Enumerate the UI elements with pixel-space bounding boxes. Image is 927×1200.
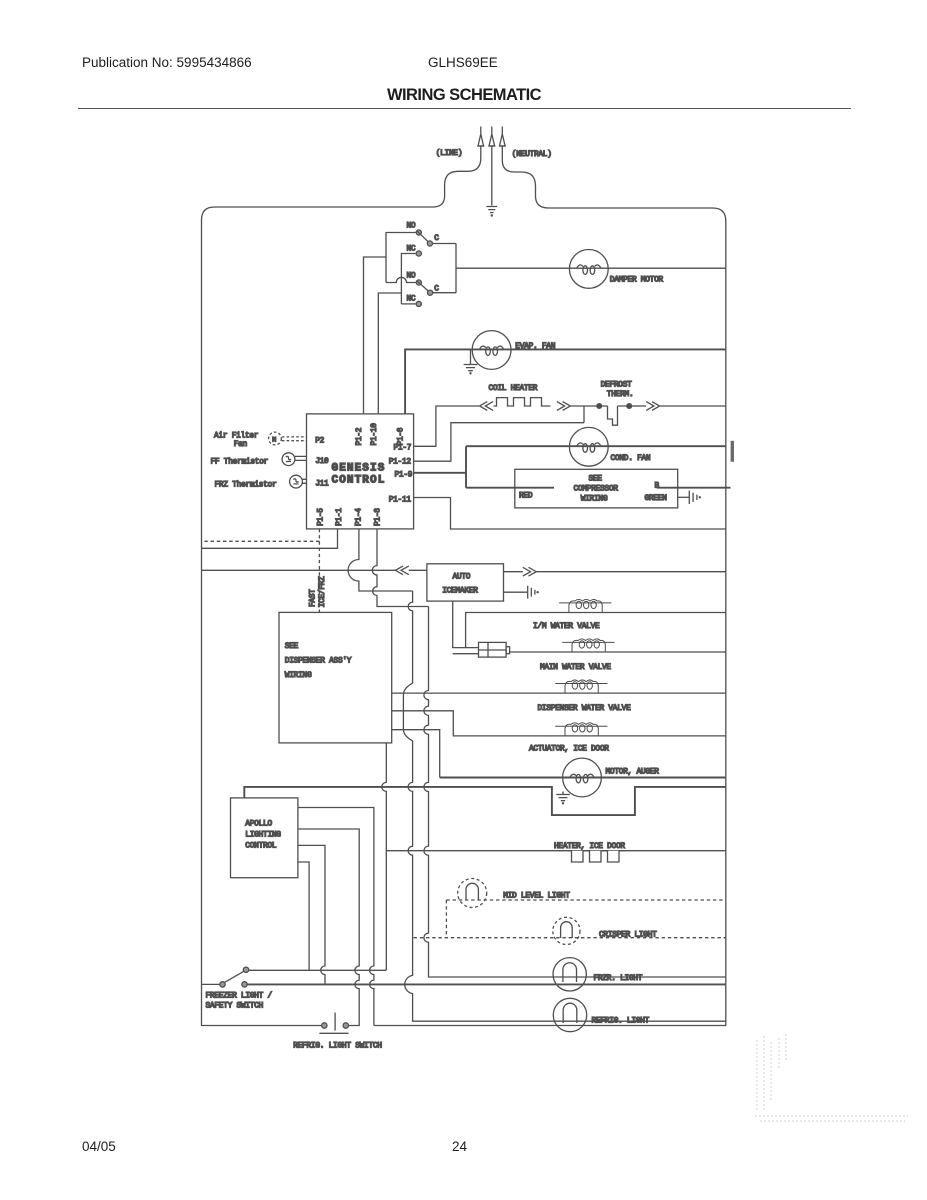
svg-text:I/M WATER VALVE: I/M WATER VALVE (533, 623, 600, 631)
wire: actuator ice door line (392, 711, 726, 736)
cond fan motor M3 (569, 427, 608, 466)
connector arrows << (icemaker feed) (395, 566, 408, 575)
svg-text:WIRING: WIRING (285, 672, 312, 680)
svg-text:MAIN WATER VALVE: MAIN WATER VALVE (540, 664, 611, 672)
apollo lighting control box (231, 798, 298, 878)
svg-text:(NEUTRAL): (NEUTRAL) (512, 151, 552, 159)
wire: icemaker pin to fuse (453, 601, 479, 654)
svg-text:P1-6: P1-6 (398, 427, 406, 445)
solenoid coil L2 (main water valve) (562, 639, 614, 652)
wire: ground prong drop (491, 146, 493, 206)
lamp crisper light (553, 917, 580, 944)
svg-text:CONTROL: CONTROL (332, 475, 386, 487)
ground symbol (auger motor) (556, 795, 570, 805)
wire: compressor GREEN lead (678, 496, 689, 498)
contact NO2 (416, 280, 421, 285)
svg-text:RED: RED (519, 493, 533, 501)
wire: P1-7 to coil heater (414, 406, 479, 446)
wire: apollo w2 to refrig switch (298, 829, 359, 1026)
tick mark on right frame (731, 441, 734, 462)
svg-text:J10: J10 (315, 458, 329, 466)
svg-text:CRISPER LIGHT: CRISPER LIGHT (599, 932, 657, 940)
contact C2 (428, 290, 433, 295)
wire: I/M water valve line (466, 613, 726, 648)
solenoid coil L3 (dispenser water valve) (555, 680, 607, 693)
svg-text:EVAP. FAN: EVAP. FAN (515, 343, 555, 351)
wire: apollo feed line (neutral) with detour under auger (244, 787, 726, 815)
auto icemaker box (427, 564, 504, 601)
wire: P1-5 dashed (203, 529, 319, 613)
damper motor M1 (569, 250, 608, 289)
svg-text:SAFETY SWITCH: SAFETY SWITCH (206, 1003, 264, 1011)
contact dot (defrost left) (597, 404, 602, 409)
contact NO1 (416, 230, 421, 235)
label FAST ICE/FRZ (rotated) (310, 576, 328, 608)
plug prong (LINE) (477, 127, 484, 147)
svg-text:SEE: SEE (589, 476, 603, 484)
wire: icemaker feed line (202, 569, 427, 571)
wire: crisper light dashed line (414, 937, 726, 939)
wire: NC2 stub (401, 303, 416, 305)
wire: line lead + left frame (line bus) (202, 146, 481, 1026)
contact NC1 (416, 251, 421, 256)
svg-text:P1-9: P1-9 (395, 472, 413, 480)
wire: heater to defrost junction (570, 405, 596, 407)
svg-text:FRZR. LIGHT: FRZR. LIGHT (594, 975, 643, 983)
freezer light / safety switch S1 (202, 967, 249, 987)
wire: motor auger line (440, 777, 726, 779)
FF thermistor RT1 (282, 453, 306, 466)
svg-text:Fan: Fan (234, 441, 247, 449)
contact C1 (427, 241, 432, 246)
svg-text:NO: NO (407, 273, 416, 281)
wire: auger ground stem (562, 792, 564, 795)
wire: compressor RED lead (466, 487, 554, 489)
wire: mid level light dashed line (446, 900, 725, 938)
svg-text:P1-4: P1-4 (356, 508, 364, 526)
evap fan motor M2 (472, 331, 511, 370)
wire: apollo w1 to bottom bus (298, 808, 374, 1026)
contact NC2 (416, 301, 421, 306)
wire: P1-1 to line bus (202, 529, 338, 548)
wire: apollo w4 to freezer NO (298, 862, 309, 970)
wire: icemaker ground stub (504, 591, 528, 593)
svg-text:ICE/FRZ: ICE/FRZ (319, 576, 327, 608)
wire: evap fan ground stem (470, 350, 472, 364)
wire: heater ice door line (386, 850, 726, 852)
wire: dispenser box bottom to heater/freezer-NO (382, 743, 387, 970)
svg-text:NC: NC (407, 296, 416, 304)
wire: defrost to neutral bus (660, 405, 726, 407)
svg-text:NO: NO (407, 223, 416, 231)
svg-text:P1-8: P1-8 (375, 508, 383, 526)
defrost thermostat element (602, 406, 627, 425)
svg-text:DAMPER MOTOR: DAMPER MOTOR (610, 277, 664, 285)
contact dot (defrost right) (627, 404, 632, 409)
svg-text:P1-12: P1-12 (389, 459, 412, 467)
svg-text:P1-1: P1-1 (336, 508, 344, 526)
wire: compressor B lead to neutral bus (657, 487, 731, 489)
svg-text:FF Thermistor: FF Thermistor (211, 459, 269, 467)
wire: main water valve line (510, 651, 726, 653)
svg-text:P1-2: P1-2 (356, 427, 364, 445)
connector arrows >> (coil heater right) (557, 402, 570, 411)
svg-text:J11: J11 (315, 481, 329, 489)
wire: C bus (433, 244, 457, 293)
lamp frzr light (553, 958, 586, 991)
wire: neutral lead + right frame (neutral bus) (374, 146, 726, 1026)
ground symbol (plug) (486, 207, 497, 217)
wire: icemaker output to neutral bus (504, 571, 726, 573)
fuse F1 (479, 642, 510, 657)
svg-text:MOTOR, AUGER: MOTOR, AUGER (606, 769, 660, 777)
wire: P1-10 riser to bracket 2 (378, 293, 401, 414)
wire: NO2 line with hop over bracket 2 (386, 277, 416, 282)
plug prong (NEUTRAL) (500, 127, 506, 147)
connector arrows >> (icemaker out) (523, 567, 536, 576)
wire: defrost to >> (632, 405, 646, 407)
svg-text:P2: P2 (315, 438, 324, 446)
solenoid coil L4 (actuator ice door) (555, 723, 607, 736)
connector arrows >> (defrost right) (646, 402, 659, 411)
relay bracket 2 (401, 254, 415, 304)
svg-text:P1-10: P1-10 (371, 423, 379, 446)
svg-text:P1-7: P1-7 (394, 445, 412, 453)
svg-text:(LINE): (LINE) (436, 150, 463, 158)
svg-text:REFRIG. LIGHT: REFRIG. LIGHT (592, 1018, 650, 1026)
svg-text:APOLLO: APOLLO (245, 821, 272, 829)
wire: freezer NO line (249, 969, 387, 971)
resistor heater ice door (569, 851, 626, 862)
refrig light switch S2 (319, 1013, 348, 1034)
svg-text:COND. FAN: COND. FAN (611, 455, 651, 463)
wire: P1-9 heavy (414, 446, 466, 488)
svg-text:LIGHTING: LIGHTING (245, 832, 281, 840)
connector arrows << (coil heater left) (480, 402, 493, 411)
ground symbol (green lead) (689, 491, 701, 504)
svg-text:THERM.: THERM. (607, 391, 634, 399)
wire: P1-2 riser to bracket 1 (364, 257, 387, 414)
svg-text:FAST: FAST (310, 589, 318, 607)
svg-text:Air Filter: Air Filter (214, 433, 258, 441)
svg-text:GENESIS: GENESIS (332, 463, 386, 475)
svg-text:DISPENSER ASS'Y: DISPENSER ASS'Y (285, 658, 352, 666)
plug prong (GROUND) (488, 127, 495, 147)
svg-text:HEATER, ICE DOOR: HEATER, ICE DOOR (554, 843, 625, 851)
svg-text:ACTUATOR, ICE DOOR: ACTUATOR, ICE DOOR (529, 746, 609, 754)
svg-text:B: B (655, 483, 660, 491)
genesis control box U1 (307, 414, 414, 529)
svg-text:ICEMAKER: ICEMAKER (442, 588, 478, 596)
svg-text:DISPENSER WATER VALVE: DISPENSER WATER VALVE (538, 705, 632, 713)
wire: P1-12 sense line (414, 423, 584, 462)
relay bracket 1 (386, 233, 416, 283)
watermark (755, 1034, 908, 1121)
wire: cond fan line (466, 445, 726, 447)
svg-text:M: M (272, 437, 276, 444)
svg-text:FRZ Thermistor: FRZ Thermistor (215, 482, 277, 490)
wire: P1-4 drop with hops (348, 529, 726, 1021)
svg-text:AUTO: AUTO (453, 574, 471, 582)
svg-text:MID LEVEL LIGHT: MID LEVEL LIGHT (503, 893, 570, 901)
svg-text:COIL HEATER: COIL HEATER (489, 385, 538, 393)
compressor box (515, 469, 678, 508)
wire: apollo w3 to freezer NC (298, 845, 325, 984)
wire: dispenser water valve line (392, 692, 726, 694)
solenoid coil L1 (I/M water valve) (559, 599, 611, 612)
svg-text:COMPRESSOR: COMPRESSOR (574, 486, 619, 494)
air filter fan motor (dashed) (269, 432, 307, 445)
wire: P1-11 to neutral bus (414, 498, 726, 530)
lamp refrig light (553, 998, 586, 1031)
ground symbol (icemaker) (528, 586, 539, 599)
auger motor M4 (563, 758, 602, 797)
svg-text:C: C (434, 286, 439, 294)
junction node (heater/defrost/P1-12) (583, 406, 585, 423)
ground symbol (evap fan) (464, 365, 478, 375)
wire: damper motor line (456, 267, 726, 269)
relay arm 2 (417, 281, 429, 291)
resistor coil heater (494, 398, 551, 406)
svg-text:DEFROST: DEFROST (601, 382, 633, 390)
svg-text:SEE: SEE (285, 643, 299, 651)
svg-text:CONTROL: CONTROL (245, 843, 277, 851)
svg-text:C: C (434, 235, 439, 243)
svg-text:NC: NC (407, 246, 416, 254)
FRZ thermistor RT2 (290, 475, 307, 488)
wire: P1-6 riser / evap fan line (405, 349, 726, 414)
svg-text:P1-5: P1-5 (318, 508, 326, 526)
wire: freezer NC line (heavy) (247, 983, 726, 985)
svg-text:WIRING: WIRING (581, 496, 608, 504)
wire: P1-8 drop with hops (372, 529, 725, 977)
svg-text:REFRIG. LIGHT SWITCH: REFRIG. LIGHT SWITCH (293, 1043, 382, 1051)
lamp mid level light (458, 879, 487, 908)
svg-text:P1-11: P1-11 (389, 497, 412, 505)
svg-text:FREEZER LIGHT /: FREEZER LIGHT / (206, 993, 273, 1001)
dispenser assy box (279, 612, 392, 743)
svg-text:GREEN: GREEN (645, 495, 668, 503)
relay arm 1 (417, 231, 428, 242)
wire: motor auger feed (392, 730, 440, 778)
